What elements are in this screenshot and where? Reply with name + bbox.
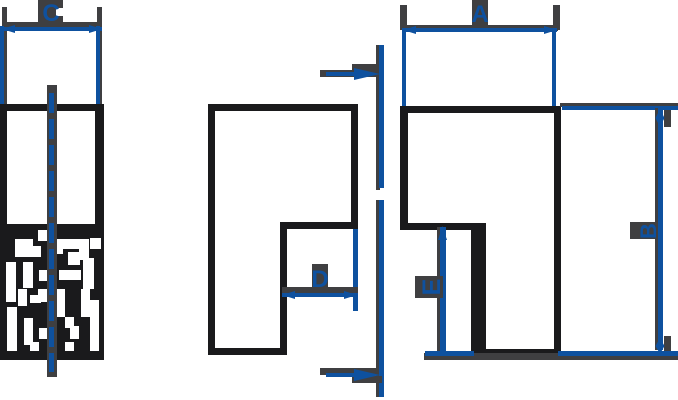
- right profile outline: [400, 106, 561, 358]
- long vertical reference line: [320, 45, 384, 397]
- insulation fill (speckled field): [0, 224, 104, 360]
- bottom extension line: [424, 351, 678, 360]
- left profile outline: [0, 104, 104, 360]
- dimension C: [0, 0, 102, 104]
- centerline (gray carrier + blue dashes): [47, 85, 57, 377]
- svg-text:B: B: [636, 223, 661, 239]
- svg-text:D: D: [311, 266, 328, 293]
- top right extension line: [560, 103, 678, 110]
- svg-text:C: C: [42, 0, 59, 27]
- dimension A: [400, 0, 560, 106]
- svg-text:A: A: [471, 1, 488, 28]
- dimension D: [282, 229, 358, 311]
- svg-text:E: E: [418, 279, 446, 296]
- dimension E: [415, 226, 447, 354]
- bottom tick: [320, 368, 377, 375]
- top tick: [320, 70, 377, 77]
- dimension B (right): [630, 108, 671, 354]
- middle profile outline: [208, 104, 358, 355]
